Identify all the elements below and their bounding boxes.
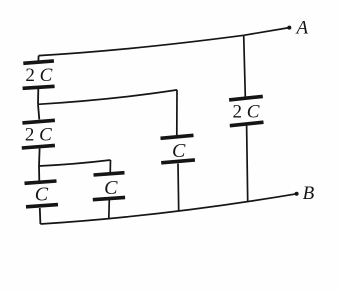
capacitor C4 value C (middle) bbox=[93, 173, 125, 200]
capacitor C6 value 2C (right) bbox=[229, 96, 263, 125]
wire C1 to junction J1 bbox=[37, 89, 39, 105]
svg-text:C: C bbox=[104, 177, 118, 199]
wire J1 down to capacitor C2 bbox=[38, 104, 39, 119]
svg-text:C: C bbox=[172, 140, 186, 162]
capacitor C2 value 2C (left middle) bbox=[22, 120, 55, 148]
wire C2 to junction J2 bbox=[38, 149, 41, 167]
svg-text:2 C: 2 C bbox=[25, 124, 52, 145]
svg-text:B: B bbox=[303, 183, 315, 204]
wire top junction down to capacitor C6 bbox=[244, 35, 246, 96]
svg-text:2 C: 2 C bbox=[25, 65, 52, 86]
svg-text:A: A bbox=[294, 18, 308, 39]
svg-text:2 C: 2 C bbox=[233, 102, 260, 123]
node B bbox=[295, 183, 315, 204]
wire C5 down to bottom wire bbox=[177, 164, 180, 211]
capacitor C1 value 2C (top left) bbox=[23, 61, 55, 88]
bottom wire to node B bbox=[40, 194, 296, 224]
wire corner down to capacitor C4 bbox=[109, 160, 111, 174]
wire A to top junction bbox=[244, 28, 290, 36]
wire J2 down to capacitor C3 bbox=[38, 166, 40, 181]
wire J1 to middle-right branch corner bbox=[38, 90, 177, 104]
wire C3 down to bottom wire corner bbox=[39, 208, 42, 224]
wire C4 down to bottom wire bbox=[108, 200, 111, 219]
wire corner down to capacitor C5 bbox=[176, 90, 178, 135]
wire top junction to top-left corner bbox=[39, 35, 244, 55]
wire corner down to capacitor C1 bbox=[37, 56, 39, 62]
node A bbox=[287, 18, 308, 39]
wire J2 to middle branch corner bbox=[39, 160, 111, 166]
wire C6 down to bottom wire bbox=[247, 125, 248, 202]
capacitor C5 value C (middle right) bbox=[161, 135, 195, 163]
svg-text:C: C bbox=[35, 184, 49, 206]
capacitor C3 value C (bottom left) bbox=[25, 181, 59, 207]
